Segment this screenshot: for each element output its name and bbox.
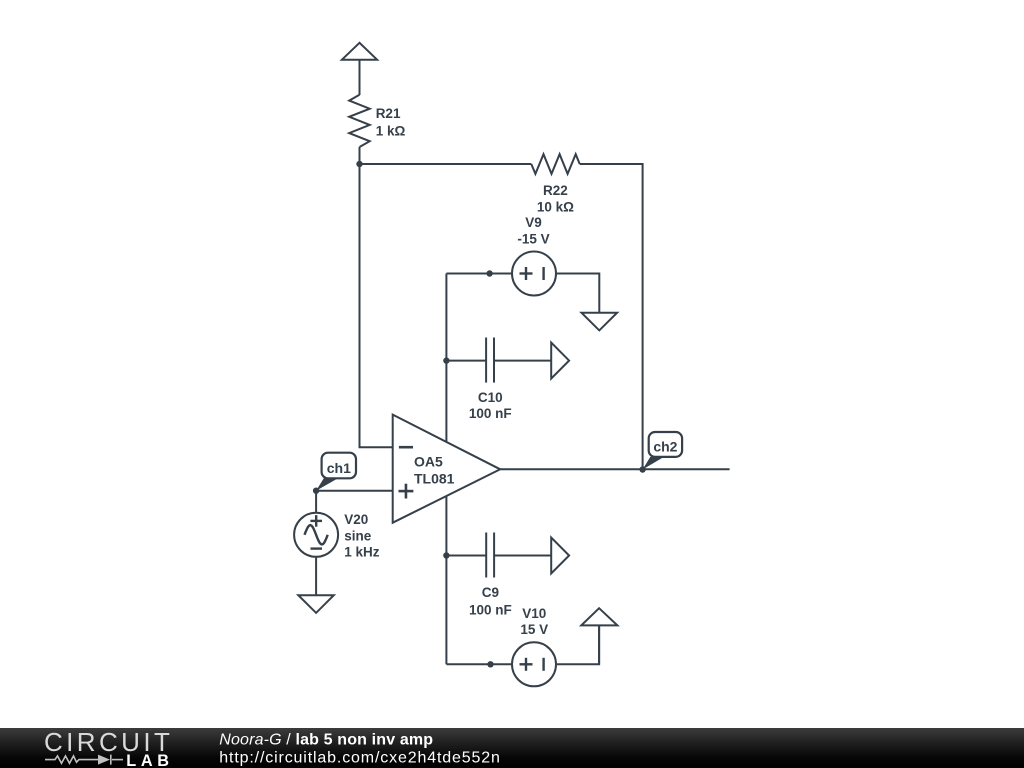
V20 plus glyph xyxy=(310,520,322,522)
V20 sine glyph xyxy=(305,525,328,544)
svg-text:V9: V9 xyxy=(525,215,542,230)
wire C9 left xyxy=(446,555,486,557)
wire V+ rail vertical xyxy=(445,274,447,442)
wire R21 bottom to node xyxy=(359,147,361,164)
svg-text:V20: V20 xyxy=(344,512,368,527)
svg-text:15 V: 15 V xyxy=(520,622,548,637)
capacitor C10 plates xyxy=(485,338,487,383)
svg-text:OA5: OA5 xyxy=(414,454,443,470)
junction node V9 lead xyxy=(486,270,492,276)
V10 plus and bar glyphs xyxy=(520,663,533,665)
resistor R21 xyxy=(349,95,370,147)
flag ch2 xyxy=(643,457,664,470)
power flag V+ top xyxy=(342,43,377,60)
capacitor C9 plates xyxy=(485,533,487,578)
power flag V+ near V10 xyxy=(581,608,617,625)
wire C10 right to probe xyxy=(494,360,551,362)
svg-text:100 nF: 100 nF xyxy=(469,603,512,618)
resistor R22 xyxy=(531,154,579,174)
svg-text:R21: R21 xyxy=(376,106,401,121)
probe arrow C10 xyxy=(551,343,569,379)
svg-text:10 kΩ: 10 kΩ xyxy=(537,199,574,214)
svg-text:-15 V: -15 V xyxy=(517,232,549,247)
svg-text:ch1: ch1 xyxy=(327,460,351,476)
flag ch1 xyxy=(316,478,338,490)
wire ch1 node to V20 xyxy=(315,491,317,513)
ground below V20 xyxy=(298,595,334,613)
wire C9 right to probe xyxy=(494,555,551,557)
wire V9 left lead xyxy=(446,273,512,275)
wire V9 right to ground xyxy=(556,274,599,313)
svg-text:LAB: LAB xyxy=(126,752,173,768)
wire node down to inverting input xyxy=(360,164,393,447)
ground near V9 xyxy=(582,313,618,331)
op-amp minus glyph xyxy=(399,447,414,498)
svg-text:100 nF: 100 nF xyxy=(469,406,512,421)
wire V20 bottom to ground xyxy=(315,557,317,595)
probe arrow C9 xyxy=(551,538,569,574)
footer bar xyxy=(0,728,1024,768)
svg-text:R22: R22 xyxy=(543,183,568,198)
V20 minus glyph xyxy=(311,547,323,549)
svg-text:TL081: TL081 xyxy=(414,470,455,486)
junction node C10 tap xyxy=(443,357,449,363)
svg-text:C10: C10 xyxy=(478,390,503,405)
wire V10 right to arrow xyxy=(556,625,599,664)
op-amp U OA5 triangle xyxy=(393,415,501,523)
junction node ch1 xyxy=(313,488,319,494)
svg-text:http://circuitlab.com/cxe2h4td: http://circuitlab.com/cxe2h4tde552n xyxy=(219,749,500,766)
junction node V10 lead xyxy=(487,661,493,667)
wire top arrow stub xyxy=(359,60,361,95)
wire bottom rail to V10 xyxy=(446,663,512,665)
svg-text:1 kΩ: 1 kΩ xyxy=(376,124,406,139)
svg-text:C9: C9 xyxy=(482,585,499,600)
wire node to R22 xyxy=(360,163,532,165)
svg-text:sine: sine xyxy=(344,528,372,543)
wire V- rail vertical xyxy=(445,496,447,664)
junction node output ch2 xyxy=(639,466,645,472)
svg-text:V10: V10 xyxy=(522,606,546,621)
V9 plus and bar glyphs xyxy=(310,267,543,671)
wire R22 to right corner xyxy=(580,164,643,470)
voltage source V20 circle xyxy=(294,513,338,557)
wire op-amp output xyxy=(500,468,729,470)
svg-text:Noora-G / lab 5 non inv amp: Noora-G / lab 5 non inv amp xyxy=(219,731,433,748)
junction node C9 tap xyxy=(443,552,449,558)
voltage source V10 circle xyxy=(512,642,556,686)
svg-text:ch2: ch2 xyxy=(653,438,677,454)
op-amp plus glyph xyxy=(399,490,414,493)
logo squiggle resistor+diode xyxy=(45,755,123,765)
wire C10 left xyxy=(446,360,486,362)
wire noninv input xyxy=(316,490,393,492)
voltage source V9 circle xyxy=(512,252,556,296)
svg-text:1 kHz: 1 kHz xyxy=(344,545,380,560)
junction node R21/R22 xyxy=(356,161,362,167)
